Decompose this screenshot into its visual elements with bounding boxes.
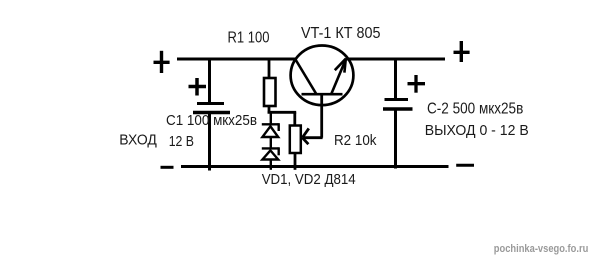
svg-text:ВХОД: ВХОД xyxy=(119,132,157,149)
svg-text:VD1, VD2 Д814: VD1, VD2 Д814 xyxy=(262,171,356,188)
svg-text:12 В: 12 В xyxy=(169,133,194,150)
svg-text:VT-1 КТ 805: VT-1 КТ 805 xyxy=(301,25,381,42)
svg-text:R1 100: R1 100 xyxy=(228,30,270,47)
svg-text:ВЫХОД 0 - 12 В: ВЫХОД 0 - 12 В xyxy=(425,122,529,139)
svg-text:pochinka-vsego.fo.ru: pochinka-vsego.fo.ru xyxy=(494,243,589,255)
svg-text:C1 100 мкх25в: C1 100 мкх25в xyxy=(166,112,257,129)
svg-text:R2 10k: R2 10k xyxy=(334,132,377,149)
svg-text:C-2 500 мкх25в: C-2 500 мкх25в xyxy=(427,100,523,117)
